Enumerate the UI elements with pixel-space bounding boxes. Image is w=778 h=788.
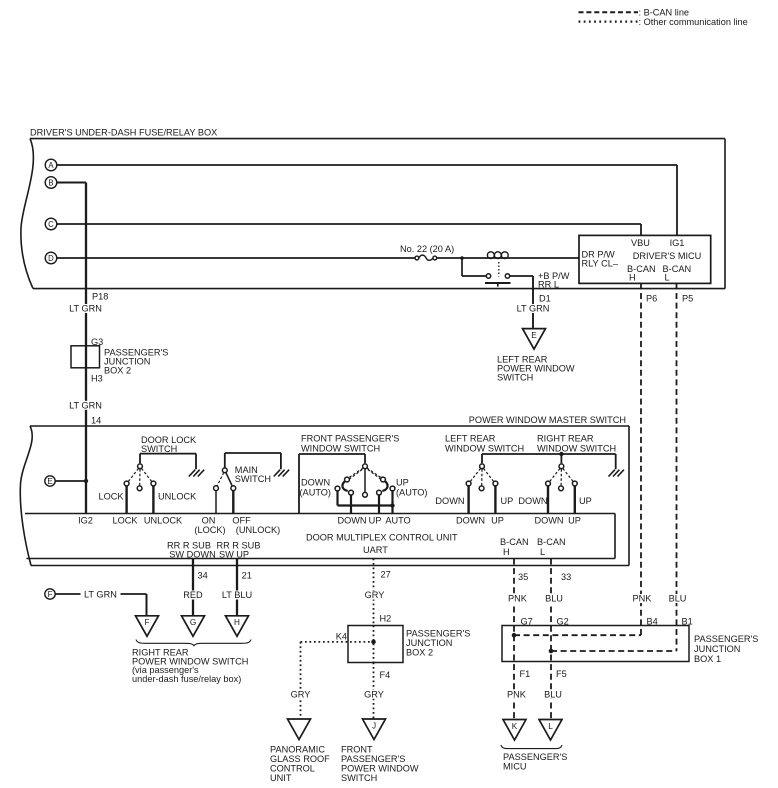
svg-text:DOWN: DOWN [534,516,563,526]
svg-text:34: 34 [198,570,208,580]
svg-text:UP: UP [501,496,514,506]
svg-text:UNIT: UNIT [270,773,292,783]
svg-text:BLU: BLU [545,594,563,604]
svg-text:B: B [48,178,53,187]
svg-text:WINDOW SWITCH: WINDOW SWITCH [301,443,380,453]
svg-text:(AUTO): (AUTO) [396,487,427,497]
svg-text:IG2: IG2 [78,516,93,526]
svg-text:WINDOW SWITCH: WINDOW SWITCH [537,443,616,453]
svg-text:P6: P6 [646,294,657,304]
svg-text:RED: RED [183,590,203,600]
svg-text:UP: UP [491,516,504,526]
svg-text:PNK: PNK [633,594,653,604]
svg-text:K4: K4 [336,631,347,641]
svg-text:DRIVER'S MICU: DRIVER'S MICU [633,251,702,261]
svg-text:G: G [190,618,196,627]
svg-text:UP: UP [579,496,592,506]
svg-text:H: H [503,547,510,557]
svg-text:33: 33 [561,572,571,582]
svg-text:FRONT PASSENGER'S: FRONT PASSENGER'S [301,433,399,443]
svg-text:H2: H2 [380,613,392,623]
svg-text:D: D [48,254,54,263]
svg-text:F4: F4 [380,670,391,680]
svg-text:H3: H3 [91,373,103,383]
svg-text:DOWN: DOWN [337,516,366,526]
svg-text:PANORAMIC: PANORAMIC [270,745,325,755]
svg-text:LT GRN: LT GRN [84,589,117,599]
svg-text:LOCK: LOCK [98,492,124,502]
svg-text:FRONT: FRONT [341,745,373,755]
svg-text:DOWN: DOWN [518,496,547,506]
svg-text:JUNCTION: JUNCTION [694,644,740,654]
svg-text:F: F [144,618,149,627]
svg-text:PNK: PNK [507,689,527,699]
svg-text:GRY: GRY [291,689,311,699]
svg-text:UNLOCK: UNLOCK [144,516,183,526]
svg-text:BOX 1: BOX 1 [694,654,721,664]
svg-text:JUNCTION: JUNCTION [406,638,452,648]
svg-text:35: 35 [518,572,528,582]
svg-text:LT GRN: LT GRN [69,400,102,410]
svg-text:POWER WINDOW MASTER SWITCH: POWER WINDOW MASTER SWITCH [469,415,626,425]
svg-text:GRY: GRY [365,590,385,600]
svg-text:WINDOW SWITCH: WINDOW SWITCH [445,443,524,453]
svg-text:AUTO: AUTO [385,516,410,526]
svg-text:UP: UP [396,477,409,487]
svg-text:P18: P18 [92,292,108,302]
svg-text:UART: UART [363,545,388,555]
svg-text:GRY: GRY [364,689,384,699]
svg-text:P5: P5 [682,294,693,304]
svg-text:H: H [234,618,240,627]
svg-text:IG1: IG1 [670,238,685,248]
svg-text:GLASS ROOF: GLASS ROOF [270,754,330,764]
svg-text:UP: UP [369,516,382,526]
svg-text:E: E [531,331,537,340]
svg-text:F1: F1 [520,669,531,679]
svg-text:H: H [629,273,636,283]
svg-text:LT GRN: LT GRN [517,304,550,314]
svg-text:DOWN: DOWN [456,516,485,526]
svg-text:K: K [512,722,518,731]
svg-text:RLY CL–: RLY CL– [582,258,619,268]
svg-text:B-CAN: B-CAN [537,537,566,547]
svg-text:CONTROL: CONTROL [270,764,315,774]
svg-text:PASSENGER'S: PASSENGER'S [694,634,758,644]
svg-text:UNLOCK: UNLOCK [158,492,197,502]
svg-text:LEFT REAR: LEFT REAR [445,433,496,443]
svg-text:(AUTO): (AUTO) [300,487,331,497]
svg-text:LT BLU: LT BLU [222,590,252,600]
svg-text:(LOCK): (LOCK) [194,525,225,535]
svg-text:UP: UP [568,516,581,526]
svg-text:D1: D1 [539,294,551,304]
svg-text:27: 27 [381,570,391,580]
svg-text:BOX 2: BOX 2 [104,365,131,375]
svg-text:MICU: MICU [503,762,526,772]
svg-text:VBU: VBU [631,238,650,248]
svg-text:SWITCH: SWITCH [235,474,271,484]
svg-text:under-dash fuse/relay box): under-dash fuse/relay box) [132,674,241,684]
svg-text:E: E [47,477,52,486]
svg-text:RR L: RR L [538,280,559,290]
svg-text:PASSENGER'S: PASSENGER'S [503,752,567,762]
svg-text:L: L [540,547,545,557]
svg-text:SWITCH: SWITCH [497,372,533,382]
svg-text:BOX 2: BOX 2 [406,648,433,658]
svg-text:F: F [48,590,53,599]
svg-text:DOOR MULTIPLEX CONTROL UNIT: DOOR MULTIPLEX CONTROL UNIT [306,532,458,542]
svg-text:: Other communication line: : Other communication line [639,17,748,27]
svg-text:SW UP: SW UP [219,549,249,559]
svg-text:BLU: BLU [544,689,562,699]
svg-text:14: 14 [91,415,101,425]
svg-text:PASSENGER'S: PASSENGER'S [341,754,405,764]
svg-text:21: 21 [242,570,252,580]
svg-text:LT GRN: LT GRN [69,304,102,314]
svg-text:B-CAN: B-CAN [500,537,529,547]
svg-text:SWITCH: SWITCH [341,773,377,783]
svg-text:DOWN: DOWN [435,496,464,506]
svg-text:DRIVER'S UNDER-DASH FUSE/RELAY: DRIVER'S UNDER-DASH FUSE/RELAY BOX [30,128,217,138]
svg-text:A: A [48,161,54,170]
svg-text:F5: F5 [556,669,567,679]
svg-text:PNK: PNK [508,594,528,604]
svg-text:RIGHT REAR: RIGHT REAR [537,433,594,443]
svg-text:PASSENGER'S: PASSENGER'S [406,629,470,639]
svg-text:DOWN: DOWN [301,477,330,487]
svg-text:No. 22 (20 A): No. 22 (20 A) [400,244,454,254]
svg-text:J: J [372,721,376,730]
svg-text:SW DOWN: SW DOWN [169,549,215,559]
svg-text:BLU: BLU [669,594,687,604]
svg-text:POWER WINDOW: POWER WINDOW [341,764,419,774]
svg-text:LOCK: LOCK [112,516,138,526]
svg-text:(UNLOCK): (UNLOCK) [236,525,280,535]
svg-text:L: L [665,273,670,283]
svg-text:L: L [548,722,553,731]
svg-text:C: C [48,220,54,229]
